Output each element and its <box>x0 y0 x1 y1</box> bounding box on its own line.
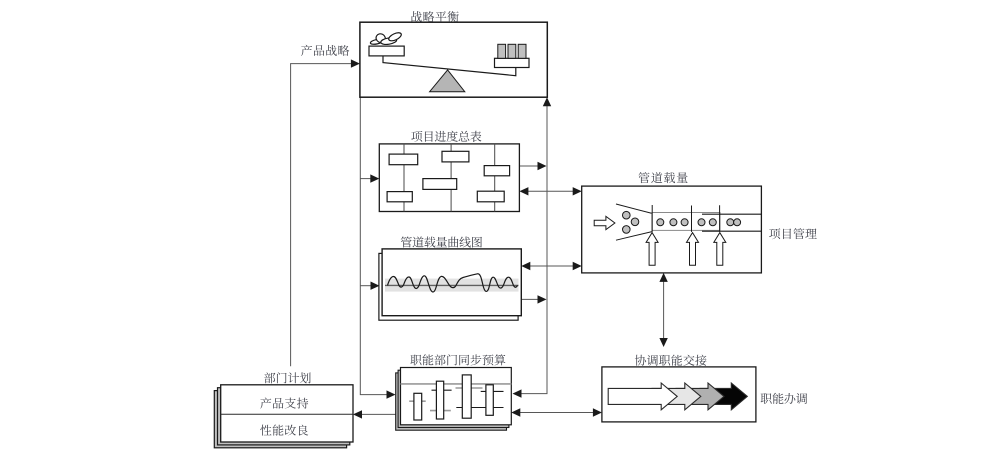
divider in dept plan <box>221 413 353 415</box>
load curve <box>388 274 518 292</box>
label 性能改良 row <box>260 425 308 436</box>
hollow up arrows <box>646 233 726 266</box>
task node R6 <box>477 191 504 202</box>
arrowhead into handover box left <box>593 408 602 416</box>
label 项目管理 label <box>769 228 817 239</box>
label 职能部门同步预算 title <box>410 354 505 365</box>
pipe dividers <box>652 205 719 232</box>
pipe walls <box>702 214 761 231</box>
balance left plate <box>369 46 404 56</box>
wire left trunk from B1 bottom down to budget box <box>360 97 387 394</box>
handover arrow 3 gray <box>676 383 724 410</box>
wire product-strategy feed (left vertical + horizontal into B1) <box>291 64 352 367</box>
arrowhead schedule-out into trunk <box>538 162 547 170</box>
label 项目进度总表 title <box>411 131 481 142</box>
wire branch into curve box <box>360 285 371 287</box>
handover arrow 4 black <box>700 383 747 410</box>
arrowhead into B1 left <box>351 59 360 67</box>
box B6 back sheets <box>214 388 349 448</box>
wire schedule/pipeline double link <box>527 190 574 192</box>
wire curve/pipeline double link <box>529 265 574 267</box>
box B7 协调职能交接 <box>602 367 756 422</box>
label 职能办调 label <box>761 393 807 404</box>
wire budget to dept-plan <box>362 413 401 415</box>
budget bars <box>414 375 493 420</box>
box B4 管道载量曲线图 <box>382 249 521 316</box>
box B2 项目进度总表 <box>379 144 519 212</box>
task node R5 <box>484 166 509 176</box>
pipe balls <box>657 219 741 226</box>
box B6 部门计划 main sheet <box>221 385 353 442</box>
budget tick lines <box>409 388 503 411</box>
label 协调职能交接 title <box>635 355 707 366</box>
beans on left plate <box>370 31 402 45</box>
curve gray band <box>385 279 519 292</box>
wire branch into schedule box <box>360 178 371 180</box>
box B4 shadow <box>379 253 518 320</box>
wire curve box to right trunk <box>521 298 537 300</box>
wire schedule to right trunk <box>519 165 537 167</box>
arrowhead into dept-plan stack right <box>353 410 362 418</box>
label 部门计划 title <box>264 372 310 383</box>
pipe gray chamber <box>652 213 720 231</box>
label 战略平衡 title <box>412 11 459 22</box>
task node R4 <box>423 179 457 190</box>
arrowhead into budget box right (from trunk) <box>513 389 522 397</box>
arrowhead into pipeline box left lower <box>573 262 582 270</box>
arrowhead curve-out into trunk <box>538 295 547 303</box>
label 管道载量 title <box>638 172 687 183</box>
task node R2 <box>387 192 412 202</box>
label 管道载量曲线图 title <box>401 236 482 247</box>
arrowhead into budget box left <box>387 390 396 398</box>
label 产品战略 label <box>301 45 349 56</box>
handover arrow 2 light gray <box>652 383 701 410</box>
balance plank <box>383 57 516 76</box>
label 产品支持 row <box>260 398 308 409</box>
budget top gray line <box>401 383 512 385</box>
arrowhead into curve box right <box>521 262 530 270</box>
arrowhead into pipeline box left upper <box>573 187 582 195</box>
box B1 战略平衡 <box>360 22 547 97</box>
arrowhead into schedule box right <box>519 187 528 195</box>
arrowhead into curve box left <box>371 282 380 290</box>
hollow input arrow <box>594 216 615 229</box>
arrowhead down toward handover box <box>659 338 667 347</box>
handover arrow 1 white <box>608 383 677 410</box>
box B5 职能部门同步预算 main <box>401 368 512 425</box>
gold bars on right platform <box>498 44 526 58</box>
arrowhead up into B1 bottom <box>543 97 551 106</box>
funnel lines <box>616 204 652 240</box>
task node R1 <box>389 154 418 165</box>
box B3 管道载量 <box>582 186 762 273</box>
schedule vertical rails <box>404 144 495 212</box>
balance right platform <box>495 58 530 67</box>
arrowhead up into pipeline box bottom <box>659 273 667 282</box>
balance fulcrum triangle <box>430 70 465 92</box>
wire budget/handover double link <box>520 412 594 414</box>
funnel balls <box>623 211 639 233</box>
arrowhead into budget box right lower <box>511 408 520 416</box>
task node R3 <box>442 151 469 162</box>
curve midline <box>385 284 519 286</box>
box B5 back sheets <box>396 370 509 430</box>
arrowhead into schedule box left <box>370 174 379 182</box>
wire right trunk from B1 bottom to budget box right <box>521 100 547 394</box>
wire pipeline/handover vertical double link <box>663 281 665 338</box>
